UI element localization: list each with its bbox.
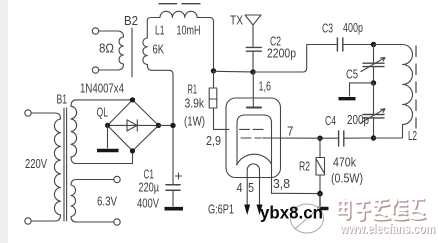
antenna TX [245,15,261,47]
svg-text:C1: C1 [144,168,155,182]
svg-text:(1W): (1W) [184,115,205,129]
heater pin 5 arrow [257,205,263,216]
wire [31,113,60,119]
node bridge left [105,123,110,128]
inductor L2 [403,45,413,125]
left gray page edge [0,0,8,243]
wire C4 [320,137,371,139]
svg-text:C4: C4 [325,114,336,128]
transformer B1 primary terminal bottom [25,218,31,224]
wire C1 to ground [172,190,174,206]
tube grid 1 dashed [240,128,264,130]
svg-text:10mH: 10mH [177,24,201,38]
ground under bridge [97,149,119,152]
node L1/R1 [211,68,216,73]
wire [99,64,124,70]
svg-text:R2: R2 [299,160,310,174]
svg-text:B2: B2 [124,14,138,28]
inductor L1 [160,11,197,17]
heater pin 4 arrow [244,205,250,216]
svg-text:QL: QL [97,106,109,120]
svg-text:TX: TX [230,14,244,28]
svg-text:2200p: 2200p [267,47,296,61]
node cathode [317,191,323,197]
bridge rectifier QL diamond [108,100,159,151]
transformer B1 6.3V winding [71,185,76,217]
svg-text:220µ: 220µ [139,181,160,195]
resistor R1 [209,88,217,108]
transformer B1 core [64,108,67,221]
ground C1 [165,207,184,211]
wire R1 to grid [214,108,230,129]
wire C3 to node [343,44,374,46]
wire node to R1 [213,71,215,88]
svg-text:220V: 220V [25,157,47,171]
svg-text:L2: L2 [408,129,417,143]
transformer B2 8ohm terminal bottom [92,67,98,73]
wire tube pin7 to node [263,137,321,139]
6.3V terminal top [114,176,120,182]
wire cathode ground [319,194,321,207]
node R2 top [317,136,322,141]
wire rail down to C1 [172,128,174,184]
transformer B1 primary winding [54,119,60,215]
svg-text:www.elecfans.com: www.elecfans.com [339,221,435,236]
capacitor C2 [246,47,261,51]
transformer B1 HV secondary winding [71,106,77,157]
wire 6K bottom to rail [147,64,173,123]
node C3/L2 [371,42,376,47]
wire R2 bottom [319,175,321,194]
wire cathode to R2 node [272,192,321,194]
svg-text:8Ω: 8Ω [99,42,114,56]
svg-text:1N4007x4: 1N4007x4 [80,82,124,96]
svg-text:7: 7 [287,125,294,139]
transformer B2 core [131,28,133,77]
tube plate wire [252,72,254,107]
svg-text:C5: C5 [346,68,358,82]
transformer B1 primary terminal top [25,110,31,116]
wire bridge right to rail [159,124,174,126]
capacitor C4 [339,131,344,146]
C1 plus sign [176,173,182,179]
heater pin 5 lead [259,176,261,205]
svg-text:5: 5 [248,181,254,195]
wire [71,100,133,106]
capacitor C1 [166,185,180,191]
svg-text:200p: 200p [347,113,369,127]
L1 core dashes [159,3,200,5]
node C5 mid [371,80,376,85]
svg-text:3,8: 3,8 [273,177,290,191]
svg-text:400p: 400p [343,21,363,35]
svg-text:4: 4 [237,181,243,195]
wire [99,31,124,37]
svg-text:G:6P1: G:6P1 [208,203,234,217]
L2 core dashed [415,46,417,128]
node bridge top [130,97,135,102]
wire [31,215,60,221]
transformer B2 8ohm winding [119,37,124,64]
bridge rectifier horizontal bar [108,124,159,126]
svg-text:2,9: 2,9 [206,134,221,148]
node bridge right [156,123,161,128]
ground C5 [339,97,356,100]
wire C2 to node [252,51,254,70]
node bridge bottom [130,148,135,153]
wire bridge left to ground [107,125,109,148]
heater pin 4 lead [246,176,248,205]
wire 6K top to L1 [147,18,160,39]
wire L2 bottom [374,125,403,139]
svg-text:ybx8.cn: ybx8.cn [260,203,323,223]
watermark logo oval [291,194,329,233]
6.3V terminal bottom [114,219,120,225]
wire top bus [214,70,254,73]
ground cathode [312,207,329,210]
variable capacitor C5 upper section [373,45,375,63]
diode inside bridge [127,120,137,131]
svg-text:3.9k: 3.9k [185,97,205,111]
resistor R2 [316,158,325,176]
wire [71,180,114,186]
svg-text:1,6: 1,6 [259,80,272,94]
node C2/plate [250,69,255,74]
svg-text:B1: B1 [57,93,68,107]
variable capacitor C5 lower section [373,83,375,114]
capacitor C3 [337,38,342,51]
tube beam plates [237,115,272,193]
vacuum tube V1 6P1 envelope [226,98,281,178]
tube grid 2 dashed [241,137,261,139]
svg-text:C3: C3 [322,22,333,36]
transformer B2 8ohm terminal top [92,28,98,34]
node C4/L2 bottom [371,135,376,140]
svg-text:6K: 6K [153,43,165,57]
wire R2 top [319,138,321,157]
wire L1 to node [197,18,213,71]
svg-text:400V: 400V [137,197,159,211]
wire [71,151,133,164]
svg-text:470k: 470k [333,156,357,170]
tube plate bar [247,107,261,109]
tube heater [247,164,259,176]
wire C5 mid to ground [350,83,374,96]
wire top bus right [253,45,337,73]
svg-text:6.3V: 6.3V [97,195,118,209]
svg-text:R1: R1 [188,83,198,97]
wire to L2 top [374,44,403,46]
svg-text:L1: L1 [155,24,165,38]
svg-text:(0.5W): (0.5W) [331,172,363,186]
node B+ rail [170,123,175,128]
tube cathode arc [237,154,272,165]
wire [71,217,114,223]
transformer B2 6K winding [143,38,147,64]
